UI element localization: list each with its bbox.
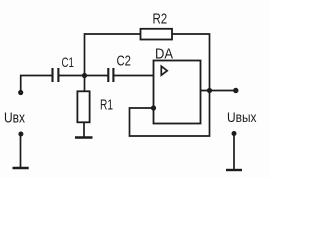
svg-text:C1: C1 [62,54,75,70]
wire op-amp output [201,90,236,92]
node input terminal [18,90,23,95]
wire feedback bottom loop [130,91,210,137]
wire input riser [21,76,52,93]
wire R2 right to output node [172,34,210,91]
capacitor C1 [53,68,59,82]
capacitor C2 [108,68,113,82]
wire lower output terminal stub [233,134,235,170]
resistor R2 [141,29,173,40]
wire C1 to C2 [60,75,108,77]
ground lower-right [226,169,242,171]
svg-text:Uвых: Uвых [227,109,257,125]
node output terminal [233,88,238,93]
ground below R1 [75,136,93,139]
node inverting input [151,105,156,110]
wire R1 to ground [83,122,85,137]
svg-text:DA: DA [155,45,173,62]
wire lower input terminal stub [20,135,22,168]
svg-text:Uвх: Uвх [4,109,25,126]
op-amp U1 box [154,61,201,124]
ground lower-left [13,167,29,169]
wire R2 branch up [85,34,141,76]
node lower-left terminal [18,132,23,137]
op-amp triangle symbol [161,66,167,75]
wire junction to R1 [84,76,86,92]
node output junction [207,88,212,93]
node junction C1/C2/R1/R2 [82,73,87,78]
node lower-right terminal [232,131,237,136]
svg-text:R1: R1 [100,96,113,113]
svg-text:C2: C2 [117,52,132,69]
svg-text:R2: R2 [153,11,168,28]
wire C2 to op-amp input [114,75,153,77]
resistor R1 [77,91,89,122]
